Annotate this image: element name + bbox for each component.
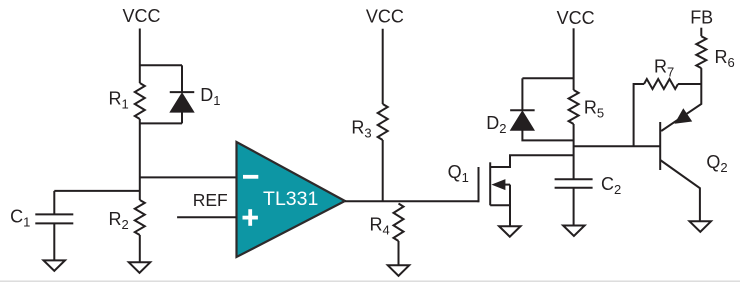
capacitor C1 <box>35 214 73 223</box>
wire op-amp output to Q1 gate <box>345 200 479 202</box>
resistor R4 <box>394 204 404 241</box>
wire C2 bottom lead <box>573 188 575 226</box>
net label VCC (right rail) <box>557 8 595 28</box>
wire R4 to ground <box>398 241 400 266</box>
label Q2 <box>706 152 727 175</box>
wire VCC down to R1 top (branch node at y=65) <box>139 29 141 84</box>
wire R1 bottom down to R2 top <box>139 119 141 200</box>
svg-text:R3: R3 <box>351 118 371 141</box>
wire node to op-amp inverting input <box>140 176 237 178</box>
transistor Q2 base bar <box>659 122 661 170</box>
label D2 <box>486 113 506 136</box>
label Q1 <box>448 162 469 185</box>
svg-text:R1: R1 <box>109 88 129 111</box>
label R7 <box>654 56 674 79</box>
resistor R3 <box>378 104 388 140</box>
page bottom rule <box>0 280 740 282</box>
wire R5 bottom down to C2 <box>573 124 575 179</box>
transistor Q1 channel bar <box>489 162 491 205</box>
wire R7 right to emitter node <box>678 83 701 85</box>
svg-text:VCC: VCC <box>557 8 595 28</box>
wire REF input to non-inverting input <box>177 216 236 218</box>
svg-text:R6: R6 <box>715 47 735 70</box>
svg-text:FB: FB <box>690 7 713 27</box>
wire branch left to D2 <box>522 77 573 79</box>
wire down to D1 cathode <box>181 65 183 92</box>
label C2 <box>601 174 621 197</box>
svg-text:D2: D2 <box>486 113 506 136</box>
resistor R7 left leg <box>634 84 644 146</box>
svg-text:TL331: TL331 <box>263 188 318 210</box>
wire Q1 source/body to ground <box>490 185 510 227</box>
wire node left to C1 <box>54 190 140 192</box>
svg-text:VCC: VCC <box>123 6 161 26</box>
net label VCC (left rail) <box>123 6 161 26</box>
op-amp non-inverting input symbol (plus) <box>243 209 258 226</box>
wire Q2 collector to ground <box>660 160 700 222</box>
ground (C2) <box>563 226 585 237</box>
wire R6 bottom to emitter node <box>700 68 702 84</box>
wire R1 bottom joins D1 bottom <box>140 122 182 124</box>
wire branch node to D1 top <box>140 64 182 66</box>
resistor R6 <box>696 36 706 68</box>
diode D1 (cathode up) <box>170 92 195 112</box>
ground (C1) <box>44 260 66 271</box>
svg-text:Q1: Q1 <box>448 162 469 185</box>
svg-text:C1: C1 <box>10 207 30 230</box>
label R1 <box>109 88 129 111</box>
resistor R2 <box>135 200 145 235</box>
svg-text:C2: C2 <box>601 174 621 197</box>
label TL331 <box>263 188 318 210</box>
wire C1 bottom lead <box>53 223 55 261</box>
label C1 <box>10 207 30 230</box>
label R4 <box>370 215 390 238</box>
svg-text:R4: R4 <box>370 215 390 238</box>
op-amp U1 TL331 body <box>237 142 346 257</box>
wire Q2 emitter <box>661 84 701 131</box>
label REF <box>193 190 228 210</box>
ground (R4) <box>388 265 409 276</box>
wire D2 anode to R5 bottom node <box>522 130 573 141</box>
wire D1 anode down <box>181 113 183 124</box>
net label VCC (middle rail) <box>366 6 404 26</box>
svg-text:Q2: Q2 <box>706 152 727 175</box>
wire node to Q2 base <box>574 145 661 147</box>
transistor Q1 body arrow <box>491 179 510 190</box>
svg-text:D1: D1 <box>200 85 220 108</box>
svg-text:R7: R7 <box>654 56 674 79</box>
op-amp inverting input symbol (minus) <box>243 175 258 179</box>
label R3 <box>351 118 371 141</box>
wire C1 top lead <box>53 191 55 215</box>
svg-text:VCC: VCC <box>366 6 404 26</box>
label D1 <box>200 85 220 108</box>
wire VCC down to R3 <box>382 29 384 104</box>
ground (R2) <box>129 262 150 273</box>
ground (Q1) <box>499 226 520 237</box>
label R6 <box>715 47 735 70</box>
transistor Q2 emitter arrow (PNP) <box>675 108 693 124</box>
label R2 <box>109 209 129 232</box>
svg-text:R2: R2 <box>109 209 129 232</box>
resistor R5 <box>569 90 579 124</box>
wire Q1 drain <box>490 155 573 167</box>
wire FB down to R6 <box>700 28 702 37</box>
diode D2 (cathode up) <box>510 110 535 130</box>
net label FB <box>690 7 713 27</box>
svg-text:REF: REF <box>193 190 228 210</box>
wire VCC down to R5 (branch at y=78) <box>573 28 575 90</box>
wire R3 bottom to output wire <box>382 140 384 201</box>
resistor R1 <box>135 83 145 119</box>
wire down to D2 cathode <box>521 78 523 110</box>
wire R2 to ground <box>139 235 141 263</box>
label R5 <box>584 97 604 120</box>
capacitor C2 <box>555 179 593 188</box>
transistor Q1 gate bar <box>478 167 480 202</box>
resistor R7 <box>644 79 678 89</box>
ground (Q2) <box>690 221 712 232</box>
svg-text:R5: R5 <box>584 97 604 120</box>
